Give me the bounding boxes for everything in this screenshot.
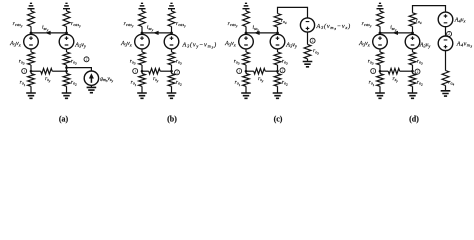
wire r_xy right lead (c) (265, 70, 277, 72)
wire (b) left branch to ground (141, 86, 143, 93)
wire (c) left branch resistor to source / i_sc node (245, 27, 247, 35)
wire (b) left branch node row (141, 65, 143, 74)
wire (d) left branch top stem (379, 9, 381, 11)
svg-text:A3vy: A3vy (74, 42, 86, 48)
svg-text:A3vx: A3vx (224, 41, 236, 47)
resistor r_cas (c) left branch (243, 11, 250, 27)
wire (a) left branch to ground (30, 86, 32, 93)
node 2 label (a) (84, 57, 89, 62)
wire (b) right branch resistor to source / i_sc node (171, 27, 173, 35)
ground (c) middle (273, 93, 283, 98)
source A3v (d) left branch (373, 34, 388, 49)
resistor r_xy (a) (41, 68, 53, 74)
resistor r_cas (b) right branch (168, 11, 175, 27)
wire (c) right to ground (307, 59, 309, 62)
resistor r_o lower (a) left branch (28, 74, 35, 87)
wire i_sc rail (c) (246, 32, 278, 34)
wire (c) middle node row (277, 65, 279, 74)
svg-text:2: 2 (176, 71, 178, 75)
wire i_sc rail (d) (380, 32, 413, 34)
wire (d) right between sources (445, 27, 447, 36)
wire (a) left branch node row (30, 65, 32, 74)
wire (d) right source2 to resistor (445, 51, 447, 71)
source A3v (b) left branch (135, 34, 150, 49)
wire r_xy left lead (d) (380, 70, 388, 72)
svg-text:(b): (b) (167, 115, 177, 124)
svg-text:1: 1 (23, 69, 25, 73)
source A3v (a) right branch (59, 34, 74, 49)
wire (a) left branch top stem (30, 9, 32, 11)
current arrow i_sc (d) (392, 31, 398, 35)
resistor r_o upper (b) left branch (139, 52, 146, 65)
svg-text:2: 2 (282, 69, 284, 73)
resistor r_xy (d) (388, 68, 400, 74)
svg-text:A3vy: A3vy (419, 42, 431, 48)
wire (d) left branch resistor to source / i_sc node (379, 27, 381, 35)
wire (d) middle source to r_o3 (412, 49, 414, 52)
svg-text:2: 2 (86, 58, 88, 62)
current arrow i_sc (b) (153, 31, 159, 35)
wire (a) right branch resistor to source / i_sc node (66, 27, 68, 35)
node 2 label (b) (175, 70, 180, 75)
resistor r_o3 (c) right (304, 44, 311, 58)
svg-text:2: 2 (312, 39, 314, 43)
wire (c) right source to resistor (307, 32, 309, 44)
ground (top rail) (b) left branch (139, 3, 146, 8)
source A3vy (c) (270, 34, 285, 49)
wire (b) right branch node row (171, 65, 173, 74)
wire top rail (c) middle to right branch (278, 7, 308, 18)
resistor r_o2 (d) middle (409, 74, 416, 87)
ground (bottom) (c) left branch (241, 93, 251, 98)
resistor r_o upper (d) left branch (377, 52, 384, 65)
wire (b) right branch to ground (171, 86, 173, 93)
wire (c) left branch top stem (245, 9, 247, 11)
node 2 label (c) right (310, 38, 315, 43)
wire (a) right branch source to r_o (66, 49, 68, 52)
resistor r_o lower (d) left branch (377, 74, 384, 87)
svg-text:A3vy: A3vy (285, 42, 297, 48)
resistor r_o upper (b) right branch (168, 52, 175, 65)
current source g_m3 (a) (84, 71, 98, 85)
svg-text:2: 2 (417, 70, 419, 74)
ground (bottom) (b) left branch (137, 93, 147, 98)
wire i_sc rail (b) (142, 32, 172, 34)
wire (c) left branch source to r_o (245, 49, 247, 52)
resistor r_o4 (d) middle (409, 13, 416, 27)
resistor r_o3 (d) middle (409, 52, 416, 65)
current arrow i_sc (a) (45, 31, 51, 35)
wire (d) middle to ground (412, 86, 414, 93)
wire (a) right branch to ground (66, 86, 68, 93)
resistor r_xy (c) (254, 68, 266, 74)
wire node to current source (a) (67, 68, 92, 71)
ground (c) right (303, 62, 313, 67)
resistor r_cas (d) left branch (377, 11, 384, 27)
current arrow i_sc (c) (254, 31, 260, 35)
ground (bottom) (a) left branch (26, 93, 36, 98)
ground (bottom) (d) left branch (375, 93, 385, 98)
wire r_xy right lead (b) (160, 70, 171, 72)
wire (c) middle to ground (277, 86, 279, 93)
svg-text:A3(vm3−vx): A3(vm3−vx) (316, 23, 351, 31)
wire (b) right branch source to r_o (171, 49, 173, 52)
resistor r_o3 (c) middle (274, 52, 281, 65)
wire (c) middle source to r_o3 (277, 49, 279, 52)
ground (bottom) (a) right branch (62, 93, 72, 98)
svg-text:(c): (c) (274, 115, 283, 124)
wire (b) right branch top stem (171, 9, 173, 11)
resistor r_o upper (a) right branch (63, 52, 70, 65)
svg-text:1: 1 (134, 69, 136, 73)
svg-text:(a): (a) (59, 115, 69, 124)
resistor r_cas (a) right branch (63, 11, 70, 27)
wire (b) left branch source to r_o (141, 49, 143, 52)
wire (b) left branch top stem (141, 9, 143, 11)
node 2 label (c) middle (280, 68, 285, 73)
node 1 label (b) (133, 69, 138, 74)
node 2 label (d) right (447, 31, 452, 36)
svg-text:A4vx: A4vx (454, 18, 466, 24)
wire (b) left branch resistor to source / i_sc node (141, 27, 143, 35)
svg-text:A3vx: A3vx (120, 41, 132, 47)
wire (d) left branch to ground (379, 86, 381, 93)
wire top rail (d) middle to right branch (413, 6, 446, 13)
svg-text:A3vx: A3vx (358, 41, 370, 47)
resistor r_o upper (a) left branch (28, 52, 35, 65)
ground (top rail) (d) left branch (377, 3, 384, 8)
wire (a) left branch resistor to source / i_sc node (30, 27, 32, 35)
resistor r_o2 (c) middle (274, 74, 281, 87)
wire r_xy left lead (a) (31, 70, 41, 72)
resistor r_o lower (b) left branch (139, 74, 146, 87)
ground (d) middle (408, 93, 418, 98)
wire r_xy right lead (a) (52, 70, 66, 72)
svg-text:1: 1 (238, 69, 240, 73)
source A4vx (d) right (438, 12, 453, 27)
node 1 label (a) (22, 69, 27, 74)
ground of current source (a) (87, 87, 97, 92)
source A3(vm3-vx) (c) right (300, 18, 314, 32)
wire (c) left branch node row (245, 65, 247, 74)
ground (bottom) (b) right branch (167, 93, 177, 98)
resistor r_o upper (c) left branch (243, 52, 250, 65)
wire (a) right branch top stem (66, 9, 68, 11)
svg-text:1: 1 (372, 69, 374, 73)
wire (d) middle resistor to source / i_sc node (412, 26, 414, 34)
node 1 label (d) (371, 69, 376, 74)
resistor r_xy (b) (149, 68, 161, 74)
ground (d) right (441, 91, 451, 96)
node 2 label (d) middle (415, 69, 420, 74)
svg-text:(d): (d) (409, 115, 419, 124)
resistor r_cas (b) left branch (139, 11, 146, 27)
wire (c) left branch to ground (245, 86, 247, 93)
ground (top rail) (c) left branch (243, 3, 250, 8)
node 1 label (c) (237, 69, 242, 74)
wire (d) left branch source to r_o (379, 49, 381, 52)
source A3vy (d) (405, 34, 420, 49)
wire current source to ground (a) (90, 85, 92, 87)
wire r_xy left lead (c) (246, 70, 254, 72)
wire r_xy right lead (d) (400, 70, 413, 72)
resistor r_cas (a) left branch (28, 11, 35, 27)
resistor r_o lower (b) right branch (168, 74, 175, 87)
wire (a) left branch source to r_o (30, 49, 32, 52)
wire (d) left branch node row (379, 65, 381, 74)
source A4vm3 (d) right (438, 36, 453, 51)
wire (d) right to ground (445, 86, 447, 91)
resistor r_o lower (a) right branch (63, 74, 70, 87)
svg-text:2: 2 (448, 32, 450, 36)
source A3v (a) left branch (24, 34, 39, 49)
ground (top rail) (a) left branch (28, 3, 35, 8)
wire (d) middle node row (412, 65, 414, 74)
wire i_sc rail (a) (31, 32, 67, 34)
ground (top rail) (a) right branch (63, 3, 70, 8)
resistor r_o lower (c) left branch (243, 74, 250, 87)
wire (c) middle resistor to source / i_sc node (277, 27, 279, 34)
svg-text:A3vx: A3vx (9, 41, 21, 47)
resistor r_o4 (d) right (442, 71, 449, 86)
source A3v (c) left branch (239, 34, 254, 49)
wire r_xy left lead (b) (142, 70, 149, 72)
wire (a) right branch node row (66, 65, 68, 74)
ground (top rail) (b) right branch (168, 3, 175, 8)
resistor r_o4 (c) middle (274, 14, 281, 28)
source A3v (b) right branch (164, 34, 179, 49)
